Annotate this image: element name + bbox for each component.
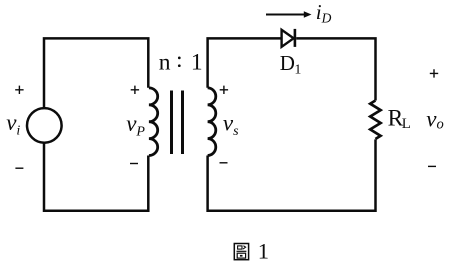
label - for vs xyxy=(220,162,228,164)
resistor RL zigzag xyxy=(370,101,380,140)
svg-text:n: n xyxy=(159,49,171,75)
label - for vi xyxy=(15,167,23,169)
label + for vs xyxy=(220,86,228,94)
wire secondary bottom / right-loop bottom xyxy=(208,139,376,210)
diode D1 triangle xyxy=(282,30,294,47)
label - for vP xyxy=(130,163,138,165)
svg-text:1: 1 xyxy=(191,49,203,75)
diode D1 cathode bar xyxy=(294,29,297,47)
wire left-loop bottom xyxy=(44,142,148,211)
caption glyph 圖 (drawn) xyxy=(234,244,248,260)
wire diode to top-right corner xyxy=(296,38,375,100)
label + for vi xyxy=(15,86,23,94)
transformer primary coil xyxy=(149,88,158,156)
transformer secondary coil xyxy=(208,88,216,156)
svg-text:1: 1 xyxy=(258,239,269,264)
source Vi (circle) xyxy=(27,108,62,143)
label - for vo xyxy=(428,165,436,167)
wire secondary top to diode xyxy=(208,38,282,87)
wire left-loop top and right side xyxy=(44,38,148,109)
current arrow iD xyxy=(266,14,304,16)
transformer core bars xyxy=(172,91,183,155)
label + for vo xyxy=(430,69,438,77)
label + for vP xyxy=(131,86,139,94)
